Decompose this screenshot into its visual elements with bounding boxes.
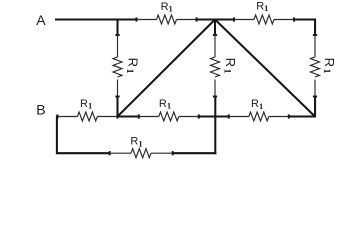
svg-text:R1: R1 bbox=[161, 1, 173, 14]
resistor R1 (middle wire, center) bbox=[139, 112, 199, 121]
wire: node A to top-left junction bbox=[55, 18, 137, 20]
wire: top middle segment bbox=[197, 18, 235, 20]
svg-text:R1: R1 bbox=[159, 98, 171, 111]
resistor R1 (top wire, right) bbox=[234, 15, 294, 24]
svg-text:B: B bbox=[36, 101, 45, 117]
wire: middle wire segment across cross junction bbox=[199, 115, 229, 117]
wire: top-right corner bbox=[294, 20, 315, 36]
resistor R1 (bottom wire) bbox=[110, 149, 173, 158]
svg-text:R1: R1 bbox=[256, 0, 268, 13]
svg-text:A: A bbox=[36, 12, 46, 28]
svg-text:R1: R1 bbox=[80, 98, 92, 111]
wire: right vertical lower segment bbox=[314, 97, 316, 118]
svg-text:R1: R1 bbox=[251, 98, 263, 111]
resistor R1 (left vertical) bbox=[113, 19, 122, 118]
svg-text:R1: R1 bbox=[130, 136, 142, 149]
resistor R1 (middle vertical) bbox=[211, 19, 220, 97]
wire: diagonal from top-center node down-right bbox=[215, 20, 315, 117]
resistor R1 (top wire, left) bbox=[137, 15, 197, 24]
wire: diagonal from top-center node down-left bbox=[118, 20, 216, 117]
resistor R1 (right vertical) bbox=[311, 35, 320, 97]
wire: middle vertical lower segment down to bottom wire bbox=[214, 97, 216, 155]
wire: middle wire right segment to right node bbox=[289, 115, 316, 117]
resistor R1 (middle wire, right) bbox=[229, 112, 289, 121]
wire: node B corner down the left side bbox=[57, 116, 110, 154]
resistor R1 (middle wire, left of B) bbox=[57, 112, 117, 121]
wire: bottom wire right segment to bottom-right corner bbox=[173, 152, 217, 154]
wire: middle wire segment junction to second resistor bbox=[118, 115, 139, 117]
